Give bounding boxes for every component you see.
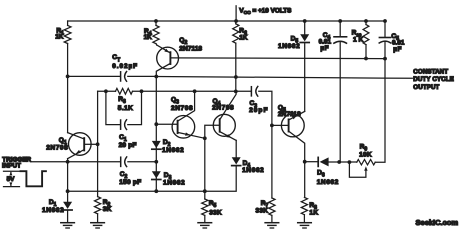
ground below D1 xyxy=(61,223,75,228)
wire R6 down xyxy=(234,43,238,93)
transistor Q3 emitter xyxy=(178,132,205,138)
capacitor C1 xyxy=(121,120,127,130)
transistor Q4 base bar xyxy=(219,119,221,132)
svg-text:20 pF: 20 pF xyxy=(119,142,137,149)
wire Q3 emitter to R5 xyxy=(204,138,206,199)
wire Q2 collector vertical xyxy=(154,76,158,191)
transistor Q5 collector xyxy=(289,131,305,162)
svg-text:1N662: 1N662 xyxy=(242,167,264,174)
capacitor CT xyxy=(121,72,127,82)
wire R4 upper stub xyxy=(154,19,158,25)
transistor Q1 emitter xyxy=(68,150,85,162)
resistor R8 xyxy=(301,160,307,223)
ground below R5 xyxy=(198,223,212,228)
transistor Q1 circle xyxy=(69,133,92,156)
transistor Q3 circle xyxy=(172,116,195,139)
svg-text:CONSTANT: CONSTANT xyxy=(413,68,448,75)
label D2 xyxy=(162,139,184,154)
resistor R5 xyxy=(202,199,208,222)
ground below R8 xyxy=(298,223,312,228)
resistor R7 xyxy=(269,198,275,222)
svg-text:5V: 5V xyxy=(7,176,16,183)
label CT xyxy=(112,54,138,70)
svg-text:OUTPUT: OUTPUT xyxy=(413,84,439,91)
label CONSTANT DUTY CYCLE OUTPUT xyxy=(413,68,454,90)
resistor R4 xyxy=(153,25,159,43)
wire C3 to Q5 base corner xyxy=(259,91,274,198)
wire R4 to Q2 emitter xyxy=(155,44,158,45)
transistor Q3 base bar xyxy=(177,121,179,133)
wire Q4 emitter vertical xyxy=(235,140,237,157)
wire CT line left xyxy=(66,75,120,79)
transistor Q5 circle xyxy=(281,114,304,137)
diode D6 xyxy=(318,157,328,166)
label D3 xyxy=(163,172,185,187)
wire R1 to Q1 collector xyxy=(67,44,69,133)
transistor Q2 base bar xyxy=(169,52,171,64)
diode D5 xyxy=(300,34,309,42)
label R6 xyxy=(239,28,247,42)
wire Q5 collector to D6 xyxy=(305,161,318,163)
svg-text:1N662: 1N662 xyxy=(278,43,300,50)
dimension lines 5V xyxy=(4,171,20,186)
svg-text:1 K: 1 K xyxy=(353,37,363,44)
label Q2 xyxy=(179,37,202,53)
resistor R2 xyxy=(95,197,101,223)
label Q3 xyxy=(171,97,193,112)
transistor Q1 base wire xyxy=(84,143,97,145)
wire Q1 emitter to D1 xyxy=(66,162,70,202)
diode D2 xyxy=(152,141,161,149)
transistor Q4 circle xyxy=(213,114,235,136)
svg-text:5.1K: 5.1K xyxy=(118,105,133,112)
label Q1 xyxy=(46,137,68,151)
label C4 xyxy=(319,32,332,52)
wire C1 loop left xyxy=(106,91,120,124)
svg-text:2N708: 2N708 xyxy=(46,144,68,151)
node Vcc supply lead xyxy=(234,6,238,23)
svg-text:10K: 10K xyxy=(359,152,372,159)
svg-text:0.02µF: 0.02µF xyxy=(112,63,138,70)
label C1 xyxy=(119,134,137,149)
capacitor C5 xyxy=(379,38,391,44)
svg-text:150 pF: 150 pF xyxy=(119,179,141,186)
capacitor C2 xyxy=(121,157,127,167)
ground below R7 xyxy=(265,223,279,228)
transistor Q4 emitter xyxy=(220,132,237,141)
svg-text:1N662: 1N662 xyxy=(163,180,185,187)
capacitor C4 xyxy=(334,37,347,43)
diode D5 branch wire xyxy=(303,19,307,34)
wire R9 right to C5 bottom xyxy=(375,59,385,163)
label R7 xyxy=(256,200,269,215)
svg-text:1N662: 1N662 xyxy=(42,207,64,214)
label TRIGGER INPUT xyxy=(2,156,32,169)
label D6 xyxy=(317,170,339,187)
transistor Q2 emitter xyxy=(157,45,171,53)
svg-text:DUTY CYCLE: DUTY CYCLE xyxy=(413,76,454,83)
label 5V xyxy=(7,176,16,183)
label R5 xyxy=(209,200,222,216)
trigger pulse waveform xyxy=(21,171,46,186)
svg-text:1N662: 1N662 xyxy=(162,147,184,154)
svg-text:33K: 33K xyxy=(256,208,269,215)
label C2 xyxy=(119,171,141,186)
label D4 xyxy=(242,160,264,174)
svg-text:2N708: 2N708 xyxy=(212,105,234,112)
wire Vcc top rail xyxy=(68,20,385,22)
label Q5 xyxy=(278,105,301,118)
svg-text:20pF: 20pF xyxy=(249,107,268,114)
resistor R3 xyxy=(116,88,133,94)
label D5 xyxy=(278,36,300,50)
label R8 xyxy=(309,202,318,217)
label R10 xyxy=(352,30,364,44)
resistor R9 xyxy=(357,160,375,165)
capacitor C5 branch upper xyxy=(383,19,387,37)
transistor Q5 emitter xyxy=(289,111,305,120)
svg-text:1K: 1K xyxy=(309,210,318,217)
transistor Q2 circle xyxy=(157,47,179,69)
wire D5 to Q5 emitter xyxy=(304,44,306,112)
label R1 xyxy=(55,27,64,40)
transistor Q3 collector xyxy=(178,91,195,121)
wire D6 to R9 xyxy=(329,160,357,164)
label Q4 xyxy=(212,98,234,112)
wire Q2 base rail xyxy=(170,57,385,60)
transistor Q3 base wire xyxy=(156,123,177,125)
wire clamp rail xyxy=(68,167,237,194)
wire R3 rail left xyxy=(98,89,116,93)
wire Q1 base vertical xyxy=(96,91,100,196)
transistor Q5 base bar xyxy=(288,119,290,131)
wire R1 upper stub xyxy=(67,21,69,25)
svg-text:µF: µF xyxy=(320,45,329,52)
resistor R1 xyxy=(64,25,71,43)
transistor Q1 base bar xyxy=(83,138,85,150)
svg-text:33K: 33K xyxy=(209,209,222,216)
label R4 xyxy=(144,28,152,41)
ground below R2 xyxy=(91,223,105,228)
transistor Q2 collector xyxy=(156,63,170,76)
svg-text:2N708: 2N708 xyxy=(171,105,193,112)
label Vcc +10 volts xyxy=(239,8,292,17)
potentiometer R9 wiper xyxy=(349,162,367,177)
wire R3 rail right xyxy=(133,89,251,93)
resistor R10 xyxy=(363,19,369,60)
svg-text:1N662: 1N662 xyxy=(317,179,339,186)
wire CT line right xyxy=(128,75,158,79)
label D1 xyxy=(42,199,64,214)
svg-text:2N7118: 2N7118 xyxy=(278,111,301,118)
watermark SeekIC.com xyxy=(416,218,459,227)
svg-text:3K: 3K xyxy=(103,206,112,213)
wire C1 loop right xyxy=(128,91,142,124)
wire C2 right xyxy=(128,160,158,164)
diode D4 xyxy=(232,157,241,165)
label R9 xyxy=(359,144,372,159)
label C5 xyxy=(391,33,404,53)
svg-text:1K: 1K xyxy=(239,35,247,42)
capacitor C5 branch lower xyxy=(383,42,387,60)
svg-text:µF: µF xyxy=(393,46,402,53)
label C3 xyxy=(249,100,268,114)
transistor Q5 base wire xyxy=(272,124,289,126)
transistor Q1 collector xyxy=(68,133,85,139)
diode D3 xyxy=(152,171,161,179)
svg-text:2N7118: 2N7118 xyxy=(179,46,202,53)
wire trigger line xyxy=(31,160,120,164)
label R3 xyxy=(118,96,133,112)
wire D1 to ground xyxy=(67,211,69,222)
diode D1 xyxy=(63,202,72,210)
transistor Q4 collector xyxy=(220,91,236,119)
transistor Q4 base wire xyxy=(203,125,220,140)
svg-text:SeekIC.com: SeekIC.com xyxy=(416,218,459,227)
wire output line xyxy=(156,75,412,79)
svg-text:INPUT: INPUT xyxy=(2,163,21,170)
svg-text:1K: 1K xyxy=(144,34,152,41)
resistor R6 xyxy=(233,21,239,43)
capacitor C4 branch lower xyxy=(339,42,341,162)
capacitor C3 xyxy=(251,86,257,96)
label R2 xyxy=(103,199,112,213)
capacitor C4 branch upper xyxy=(338,19,342,36)
svg-text:1K: 1K xyxy=(55,34,63,41)
